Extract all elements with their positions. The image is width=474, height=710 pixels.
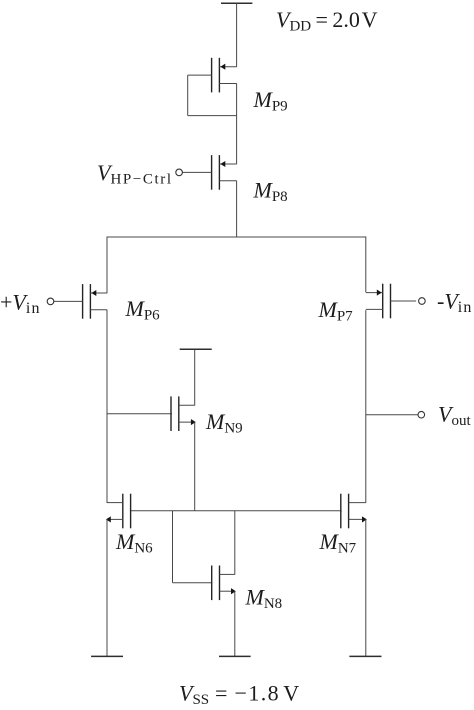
wire MP6 drain to MN6 drain (left branch) [106, 310, 108, 503]
svg-text:Vout: Vout [438, 402, 471, 430]
svg-text:MN6: MN6 [115, 529, 153, 557]
svg-text:MN7: MN7 [319, 529, 357, 557]
wire tail rail (sources of MP6 and MP7) [107, 236, 366, 238]
transistor MP7 [366, 284, 416, 319]
svg-text:VHP−Ctrl: VHP−Ctrl [97, 160, 173, 188]
terminal -Vin (open circle) [419, 298, 426, 305]
terminal VHP-Ctrl (open circle) [176, 169, 183, 176]
svg-text:MP9: MP9 [253, 87, 288, 115]
wire MN7 source to ground bar [365, 519, 367, 656]
transistor MN7 [341, 494, 367, 529]
svg-text:+Vin: +Vin [0, 290, 41, 318]
wire MP9 gate-drain diode connection [188, 75, 237, 116]
svg-text:VSS = −1.8 V: VSS = −1.8 V [179, 681, 301, 709]
rail stub bar above MN9 [180, 348, 212, 350]
wire MN9 drain stub [194, 349, 196, 405]
wire MN7 drain up to output branch [365, 310, 367, 503]
wire MP8 drain to tail rail [236, 181, 238, 237]
svg-text:MP6: MP6 [125, 296, 161, 324]
transistor MN9 [171, 396, 196, 431]
svg-text:MN8: MN8 [245, 585, 283, 613]
terminal +Vin (open circle) [47, 298, 54, 305]
wire gate bus (MN6, MN7, MN8 gates) [131, 510, 341, 512]
power rail VDD (top bar) [221, 2, 252, 4]
wire VDD bar to MP9 source [236, 3, 238, 67]
transistor MP6 [54, 284, 107, 319]
transistor MP8 [182, 155, 236, 190]
ground bar VSS left [91, 655, 123, 657]
wire rail to MP6 source [106, 236, 108, 293]
wire MN8 source to ground bar [234, 591, 236, 656]
wire MN6 source to ground bar [106, 519, 108, 656]
wire output node to Vout terminal [366, 414, 418, 416]
svg-text:-Vin: -Vin [437, 289, 473, 317]
wire gate bus junction down to MN8 gate [173, 511, 212, 583]
transistor MP9 [188, 58, 237, 93]
terminal Vout (open circle) [418, 411, 425, 418]
ground bar VSS right [349, 655, 381, 657]
svg-text:VDD = 2.0 V: VDD = 2.0 V [276, 7, 378, 35]
svg-text:MN9: MN9 [205, 409, 243, 437]
wire MN9 source to gate bus [194, 422, 196, 511]
ground bar VSS middle [219, 655, 251, 657]
wire node MP6 drain to MN9 gate [107, 413, 172, 415]
wire rail to MP7 source [365, 236, 367, 292]
transistor MN8 [212, 566, 236, 601]
svg-text:MP7: MP7 [318, 297, 354, 325]
transistor MN6 [106, 494, 131, 529]
wire MN8 drain up to gate bus [234, 511, 236, 575]
svg-text:MP8: MP8 [253, 178, 288, 206]
wire MP9 drain to MP8 source [236, 83, 238, 164]
